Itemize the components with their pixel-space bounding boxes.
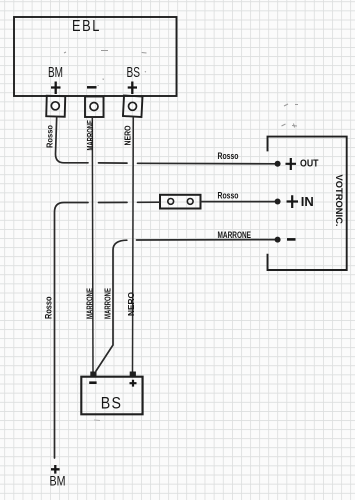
battery plus sign bbox=[130, 380, 137, 387]
Votronic minus sign bbox=[287, 238, 296, 241]
node BM plus sign (bottom) bbox=[51, 465, 60, 474]
svg-text:BS: BS bbox=[127, 64, 141, 81]
wire Nero: EBL BS lug to battery plus post bbox=[132, 117, 135, 372]
terminal lug 3 (EBL BS) bbox=[123, 96, 143, 117]
svg-text:MARRONE: MARRONE bbox=[85, 288, 95, 319]
wire Marrone: Votronic minus to battery minus post bbox=[96, 240, 275, 371]
terminal lug 2 (EBL minus) bbox=[85, 97, 104, 118]
EBL minus sign bbox=[87, 86, 97, 89]
svg-text:MARRONE: MARRONE bbox=[85, 120, 95, 151]
svg-text:Rosso: Rosso bbox=[44, 296, 54, 319]
Votronic minus terminal dot bbox=[275, 237, 281, 243]
terminal lug 1 (EBL BM) bbox=[46, 96, 65, 117]
pencil marks above Votronic bbox=[282, 104, 299, 128]
EBL BS plus sign bbox=[128, 82, 137, 95]
svg-text:NERO: NERO bbox=[123, 125, 133, 145]
battery plus post bbox=[130, 372, 136, 377]
svg-text:VOTRONIC.: VOTRONIC. bbox=[333, 175, 344, 227]
wire Rosso: battery BM plus through fuse to Votronic +IN bbox=[55, 202, 276, 458]
battery BS box BT1 bbox=[81, 377, 142, 415]
svg-text:EBL: EBL bbox=[72, 18, 101, 35]
battery minus post bbox=[90, 372, 96, 377]
Votronic box outline U-VOTRONIC bbox=[268, 137, 347, 270]
pencil mark below battery bbox=[94, 419, 100, 422]
svg-text:Rosso: Rosso bbox=[218, 151, 239, 161]
svg-text:BM: BM bbox=[50, 474, 66, 489]
svg-text:MARRONE: MARRONE bbox=[218, 230, 252, 240]
Votronic +IN plus sign bbox=[287, 195, 299, 208]
fuse F1 bbox=[160, 195, 201, 209]
svg-text:Rosso: Rosso bbox=[218, 191, 239, 201]
EBL unit box U-EBL bbox=[14, 17, 177, 96]
svg-text:IN: IN bbox=[301, 194, 314, 209]
battery minus sign bbox=[89, 381, 96, 384]
wire Marrone: EBL minus lug to battery minus post bbox=[91, 117, 94, 372]
svg-text:NERO: NERO bbox=[126, 292, 136, 316]
Votronic +IN terminal dot bbox=[275, 199, 281, 205]
svg-text:MARRONE: MARRONE bbox=[103, 288, 113, 319]
pencil marks inside EBL bbox=[64, 51, 147, 86]
Votronic +OUT plus sign bbox=[286, 158, 297, 170]
EBL BM plus sign bbox=[51, 82, 61, 95]
svg-text:OUT: OUT bbox=[300, 159, 319, 170]
svg-text:BS: BS bbox=[101, 395, 123, 413]
Votronic +OUT terminal dot bbox=[275, 161, 281, 167]
wire Rosso: EBL BM lug to Votronic +OUT bbox=[56, 117, 276, 164]
svg-text:BM: BM bbox=[48, 64, 63, 81]
svg-text:Rosso: Rosso bbox=[45, 125, 55, 148]
